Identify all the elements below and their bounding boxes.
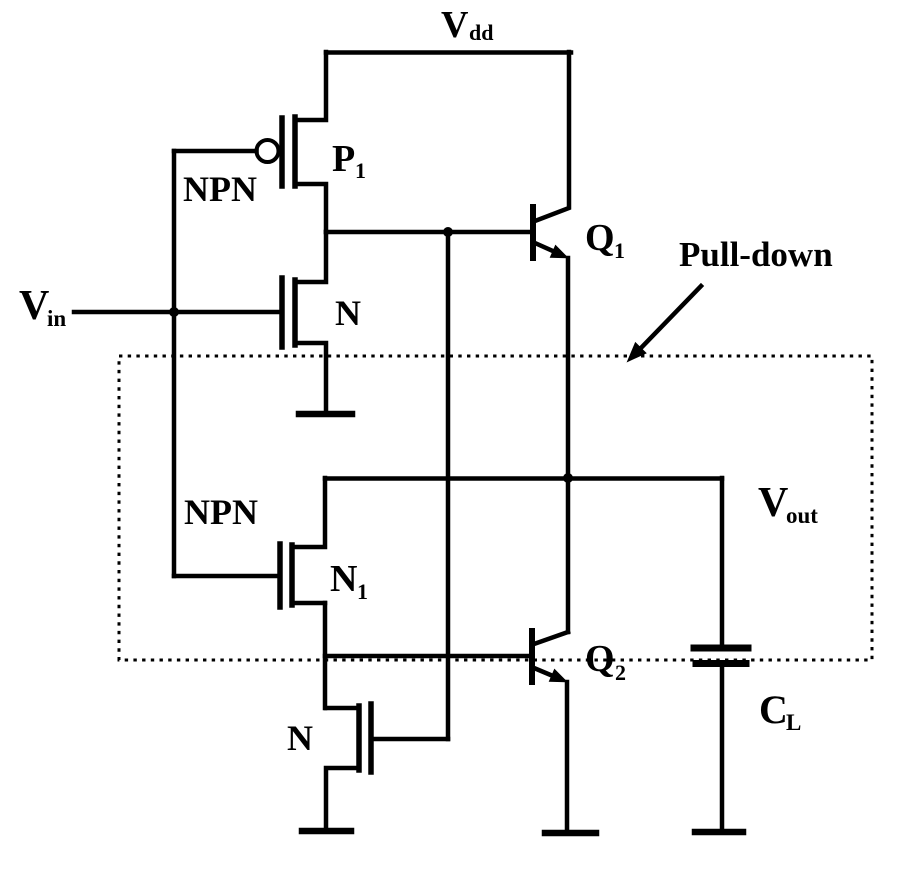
label Q1 bbox=[585, 217, 625, 263]
svg-text:1: 1 bbox=[355, 158, 366, 183]
svg-text:Q: Q bbox=[585, 638, 615, 680]
svg-text:1: 1 bbox=[357, 579, 368, 604]
ground under N bottom bbox=[302, 828, 351, 835]
wire node A horizontal bbox=[326, 230, 532, 235]
svg-text:P: P bbox=[332, 138, 355, 180]
svg-text:N: N bbox=[330, 558, 357, 600]
wire Vout bbox=[325, 476, 722, 481]
wire Vdd rail bbox=[326, 50, 571, 55]
svg-text:Pull-down: Pull-down bbox=[679, 235, 833, 274]
svg-text:Q: Q bbox=[585, 217, 615, 259]
label NPN lower bbox=[184, 492, 258, 532]
nmos N upper bbox=[282, 232, 326, 411]
svg-text:N: N bbox=[287, 718, 313, 758]
svg-text:N: N bbox=[335, 293, 361, 333]
wire Vin bbox=[74, 310, 281, 315]
svg-text:V: V bbox=[19, 283, 49, 329]
svg-text:V: V bbox=[441, 4, 469, 46]
ground under CL bbox=[695, 829, 743, 836]
label NPN upper bbox=[183, 169, 257, 209]
wire N1 source to N bottom drain bbox=[323, 603, 328, 708]
svg-text:2: 2 bbox=[615, 660, 626, 685]
label N1 bbox=[330, 558, 368, 604]
svg-text:out: out bbox=[786, 503, 818, 528]
svg-text:NPN: NPN bbox=[184, 492, 258, 532]
wire P1 gate to input node bbox=[174, 149, 257, 154]
arrow pull-down bbox=[628, 286, 701, 361]
svg-text:C: C bbox=[759, 687, 788, 732]
label N upper bbox=[335, 293, 361, 333]
ground under Q2 bbox=[545, 830, 596, 837]
label Pull-down bbox=[679, 235, 833, 274]
svg-text:1: 1 bbox=[614, 238, 625, 263]
label Vout bbox=[758, 480, 818, 528]
svg-text:in: in bbox=[47, 306, 66, 331]
label Vdd bbox=[441, 4, 493, 46]
wire node A vertical bbox=[446, 232, 451, 739]
wire Q1 emitter to Q2 collector bbox=[566, 258, 571, 632]
wire Q2 base bbox=[325, 654, 531, 659]
label Vin bbox=[19, 283, 66, 331]
wire Q2 emitter to ground bbox=[565, 682, 570, 832]
capacitor CL bbox=[694, 478, 748, 830]
wire N1 gate bbox=[174, 574, 280, 579]
svg-text:V: V bbox=[758, 480, 788, 526]
label Q2 bbox=[585, 638, 626, 685]
pmos P1 bbox=[257, 52, 327, 232]
label N bottom bbox=[287, 718, 313, 758]
npn Q1 bbox=[533, 52, 569, 258]
npn Q2 bbox=[532, 631, 568, 682]
svg-text:L: L bbox=[786, 710, 801, 735]
junction dot input node bbox=[169, 307, 179, 317]
nmos N1 bbox=[280, 478, 325, 607]
svg-text:dd: dd bbox=[469, 20, 493, 45]
dotted box pull-down region bbox=[119, 356, 872, 660]
wire input vertical bbox=[172, 151, 177, 576]
svg-text:NPN: NPN bbox=[183, 169, 257, 209]
label P1 bbox=[332, 138, 366, 183]
label CL bbox=[759, 687, 801, 735]
junction dot Vout node bbox=[563, 473, 573, 483]
nmos N bottom bbox=[326, 704, 448, 831]
ground under N upper bbox=[299, 411, 352, 418]
junction dot node A bbox=[443, 227, 453, 237]
